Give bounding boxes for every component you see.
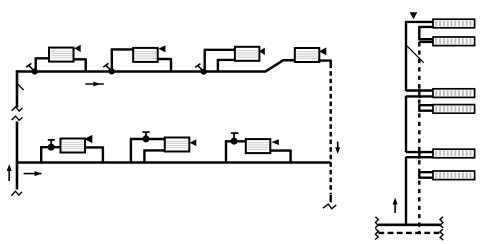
air-vent triangle at T1 [74,45,81,52]
valve on main at T1 (stem + crossbar) [26,63,33,70]
radiator R3 [433,89,475,98]
wire: riser top corner and supply into R1 [406,21,435,91]
air-vent triangle at T4 [319,48,326,56]
wire: floor2 supply horizontal into R3 [406,89,435,91]
pipe-break squiggle at bottom of left vertical [11,191,22,196]
wire: B3 return to main [271,150,291,163]
junction dot at T2 [109,68,115,74]
wire: T3 supply riser from junction [204,50,236,72]
wire: downcomer into R6 and out [419,171,434,179]
wire: floor2 lower horizontal from R3 to riser [406,95,435,97]
wire: downcomer into R2 and out [419,39,434,46]
valve on main at T2 (stem + crossbar) [103,63,110,70]
wire: dashed downcomer to return main [418,181,420,233]
radiator T3 [235,47,260,61]
break squiggle left end of return main [375,229,378,240]
wire: top supply main horizontal [16,70,266,73]
break squiggle right end of return main [440,229,443,240]
arrow: flow right on top main [85,83,103,85]
valve with handle on B2 supply [143,135,150,142]
wire: bottom supply main (solid) [378,224,440,227]
radiator R1 [433,19,475,28]
wire: riser middle section (floor2 to floor3) [405,96,407,152]
air-vent triangle at T2 [159,45,166,52]
wire: B1 return to main [84,146,103,162]
radiator R2 [433,37,475,46]
wire: B3 supply riser and horizontal [225,140,247,163]
valve with handle on B3 supply [231,138,238,145]
wire: riser lower section down to supply main [405,157,407,225]
radiator R6 [433,171,475,180]
wire: left vertical pipe lower section [16,122,19,190]
wire: dashed downcomer floor2-floor3 [418,113,420,149]
wire: bottom supply main horizontal [16,161,331,164]
wire: T3 return (bottom-left) down to main [218,59,236,72]
break diagonal across riser [407,46,424,63]
radiator B2 [165,138,190,152]
wire: T4 return to dashed drop [318,60,331,64]
radiator R5 [433,149,475,158]
wire: dashed drop final solid stub [330,195,332,203]
radiator T1 [49,48,74,62]
arrow: flow up beside riser [394,201,396,213]
arrow: flow right on bottom main [24,173,42,175]
air-vent triangle at B1 [84,135,92,143]
arrow: flow down beside dashed drop [337,142,339,151]
break squiggle right end of supply main [440,217,443,228]
air-vent triangle at B2 [190,139,197,146]
wire: T1 return to main [73,58,86,71]
pipe-break squiggle at bottom of dashed drop [323,204,336,209]
pipe-break squiggle upper [12,107,23,111]
wire: T2 supply riser from junction [111,49,134,72]
slope tick on left vertical pipe [16,82,24,90]
radiator B3 [246,139,270,153]
wire: downcomer crossing floor3 [418,150,420,159]
wire: bottom return main (dashed) [378,232,440,234]
junction dot at T3 [201,69,207,75]
air-vent triangle at B3 [272,139,279,145]
wire: B2 supply riser and top horizontal [130,138,166,163]
wire: T1 supply riser from junction [35,58,50,72]
radiator R4 [433,105,475,114]
wire: dashed downcomer below floor3 crossing [418,160,420,171]
wire: B1 supply riser and horizontal [40,146,61,163]
valve with handle on B1 supply [48,144,55,151]
wire: downcomer crossing floor2 [418,89,420,99]
wire: R1 outlet to downcomer [419,26,434,40]
wire: floor3 lower horizontal from R5 to riser [406,156,435,158]
air-vent triangle at T3 [259,48,265,55]
wire: floor3 supply horizontal into R5 [406,151,435,153]
break squiggle left end of supply main [375,217,378,228]
wire: dashed downcomer floor1-floor2 [418,51,420,89]
wire: short dash below floor2 crossing [418,100,420,104]
pipe-break squiggle lower [12,116,23,120]
junction dot at T1 [32,68,38,74]
wire: main diagonal jog up to radiator T4 level [265,60,284,72]
radiator T4 [295,48,320,62]
wire: T2 return to main [157,58,171,72]
radiator B1 [61,139,86,153]
wire: B2 return riser (bottom-left) [143,149,165,163]
wire: main horizontal into radiator T4 [283,59,296,62]
radiator T2 [133,48,158,62]
air-vent triangle (points down) on riser top [410,12,418,19]
wire: dashed return drop from T4 [330,64,332,195]
valve on main at T3 (stem + crossbar) [195,64,202,71]
arrow: flow up at bottom-left [8,168,10,181]
wire: downcomer into R4 and out [419,104,434,111]
wire: left vertical pipe upper section [16,70,19,107]
